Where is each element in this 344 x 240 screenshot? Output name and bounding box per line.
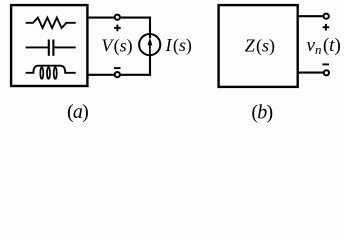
terminal node bottom (b) [324,70,329,75]
wire current-source bottom stub [149,54,151,75]
network box N (a) [11,5,87,86]
wire top (a) [87,17,151,19]
wire current-source top stub [149,18,151,38]
label I(s) [165,35,192,56]
wire bottom (a) [87,74,151,76]
terminal node top (a) [115,15,120,20]
wire top stub (b) [298,15,323,17]
svg-text:(b): (b) [251,102,272,124]
terminal node bottom (a) [115,72,120,77]
wire bottom stub (b) [298,72,323,74]
inductor L [26,66,76,79]
capacitor C [26,40,76,56]
terminal node top (b) [324,14,329,19]
resistor R [26,18,76,28]
svg-text:vn(t): vn(t) [307,35,341,57]
impedance box Z(s) (b) [219,5,298,87]
minus sign (b) [322,63,329,65]
svg-text:(a): (a) [67,101,88,123]
svg-text:Z(s): Z(s) [245,35,275,56]
plus sign (b) [323,24,330,31]
current source I(s) [139,34,160,55]
plus sign (a) [114,25,121,32]
label Z(s) [245,35,275,56]
label V(s) [101,36,132,57]
svg-text:I(s): I(s) [165,35,192,56]
label vn(t) [307,35,341,57]
label (b) [251,102,272,124]
label (a) [67,101,88,123]
svg-text:V(s): V(s) [101,36,132,57]
minus sign (a) [114,67,121,69]
